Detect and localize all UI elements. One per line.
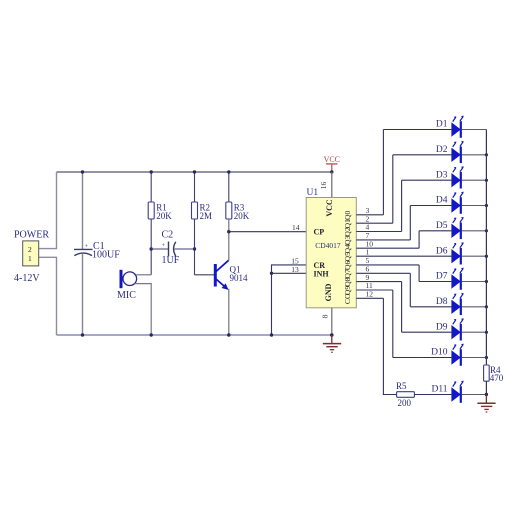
wire CR pin 15 bbox=[272, 265, 307, 335]
wire CP pin 14 bbox=[229, 231, 306, 233]
svg-text:POWER: POWER bbox=[14, 230, 49, 241]
wire R4 bottom bbox=[485, 381, 487, 394]
ground under IC bbox=[323, 335, 341, 352]
wire pin 8 bbox=[331, 308, 333, 335]
LED D2 bbox=[451, 141, 463, 163]
svg-text:4-12V: 4-12V bbox=[14, 273, 40, 284]
wire R1 bottom to MIC node bbox=[150, 219, 152, 275]
svg-text:470: 470 bbox=[490, 373, 504, 383]
junction bus / D2 bbox=[485, 153, 488, 156]
svg-text:U1: U1 bbox=[307, 188, 319, 198]
wire C2 right bbox=[175, 248, 195, 250]
wire pin 3 vertical bbox=[382, 130, 384, 215]
wire top power rail bbox=[57, 171, 332, 173]
svg-text:VCC: VCC bbox=[324, 155, 340, 164]
wire pin 12 vertical to R5 bbox=[383, 298, 396, 394]
wire pin 12 stub bbox=[356, 297, 383, 299]
wire pin 1 to LED D6 bbox=[356, 255, 451, 257]
wire R1 top bbox=[150, 172, 152, 202]
wire Q1 collector bbox=[228, 219, 230, 261]
wire pin 5 stub bbox=[356, 264, 419, 266]
wire LED D1 anode bbox=[383, 129, 451, 131]
wire pin 9 vertical bbox=[401, 282, 403, 333]
svg-text:D1: D1 bbox=[436, 120, 448, 130]
svg-text:R5: R5 bbox=[396, 381, 407, 391]
svg-text:Q1: Q1 bbox=[343, 219, 352, 228]
wire left rail lower (power pin 1 to bottom rail) bbox=[39, 257, 57, 335]
svg-text:Q0: Q0 bbox=[343, 210, 352, 219]
wire Q1 emitter bbox=[228, 289, 230, 335]
svg-text:100UF: 100UF bbox=[92, 250, 120, 261]
wire LED D2 cathode bbox=[462, 154, 487, 156]
svg-text:D3: D3 bbox=[436, 170, 448, 180]
svg-text:CP: CP bbox=[314, 228, 325, 237]
wire LED D9 cathode bbox=[462, 331, 487, 333]
wire C2 left bbox=[151, 248, 168, 250]
power VCC bbox=[324, 155, 340, 172]
svg-text:Q4: Q4 bbox=[343, 244, 352, 253]
svg-text:D5: D5 bbox=[436, 221, 448, 231]
wire LED D2 anode bbox=[393, 154, 452, 156]
wire LED D10 anode bbox=[393, 357, 452, 359]
resistor R3 bbox=[226, 202, 232, 219]
wire cathode bus bbox=[485, 130, 487, 366]
LED D5 bbox=[451, 217, 463, 239]
wire LED D4 cathode bbox=[462, 205, 487, 207]
junction bus / D4 bbox=[485, 204, 488, 207]
svg-text:D11: D11 bbox=[431, 385, 447, 395]
wire LED D4 anode bbox=[410, 205, 451, 207]
capacitor C2 bbox=[162, 242, 176, 257]
LED D11 bbox=[451, 381, 463, 403]
wire LED D5 anode bbox=[419, 230, 451, 232]
wire MIC top terminal bbox=[136, 274, 151, 276]
wire pin 3 stub bbox=[356, 214, 383, 216]
junction bus / D5 bbox=[485, 229, 488, 232]
svg-text:13: 13 bbox=[291, 265, 299, 274]
wire pin 7 stub bbox=[356, 239, 410, 241]
junction R1 / C2 wire bbox=[150, 247, 153, 250]
transistor Q1 bbox=[215, 260, 228, 289]
svg-text:GND: GND bbox=[324, 283, 333, 301]
svg-text:CD4017: CD4017 bbox=[315, 241, 341, 250]
resistor R5 bbox=[397, 392, 415, 398]
wire LED D6 cathode bbox=[462, 255, 487, 257]
wire pin 4 stub bbox=[356, 231, 401, 233]
junction bottom rail / MIC bbox=[150, 333, 153, 336]
connector POWER bbox=[23, 241, 39, 266]
LED D9 bbox=[451, 318, 463, 340]
wire LED D11 cathode bbox=[462, 394, 487, 396]
junction D11 / ground bbox=[485, 393, 488, 396]
svg-text:MIC: MIC bbox=[117, 290, 136, 301]
svg-text:2: 2 bbox=[28, 245, 32, 254]
svg-text:Q3: Q3 bbox=[343, 236, 352, 245]
svg-text:+: + bbox=[85, 243, 89, 250]
junction bottom rail / CR bbox=[270, 333, 273, 336]
wire LED D5 cathode bbox=[462, 230, 487, 232]
wire pin 2 stub bbox=[356, 222, 393, 224]
wire R2 bottom to base node bbox=[194, 219, 196, 275]
wire LED D1 cathode bbox=[462, 129, 487, 131]
wire bottom ground rail bbox=[57, 334, 332, 336]
junction top rail / VCC pin16 bbox=[330, 170, 333, 173]
junction collector / CP wire bbox=[227, 230, 230, 233]
junction top rail / R1 bbox=[150, 170, 153, 173]
wire R2 top bbox=[194, 172, 196, 202]
junction bus / D7 bbox=[485, 280, 488, 283]
svg-text:20K: 20K bbox=[234, 211, 250, 221]
junction bottom rail / C1 bbox=[81, 333, 84, 336]
wire Q1 base bbox=[195, 274, 215, 276]
junction top rail / R3 bbox=[227, 170, 230, 173]
LED D4 bbox=[451, 192, 463, 214]
junction bus / D3 bbox=[485, 179, 488, 182]
LED D10 bbox=[451, 344, 463, 366]
junction bus / D9 bbox=[485, 331, 488, 334]
svg-text:12: 12 bbox=[366, 290, 374, 299]
LED D1 bbox=[451, 116, 463, 138]
svg-text:Q7: Q7 bbox=[343, 269, 352, 278]
capacitor C1 bbox=[74, 243, 93, 256]
svg-text:8: 8 bbox=[321, 314, 330, 318]
svg-text:INH: INH bbox=[314, 269, 330, 278]
wire pin 9 stub bbox=[356, 281, 401, 283]
wire pin 11 stub bbox=[356, 289, 393, 291]
resistor R2 bbox=[192, 202, 198, 219]
junction top rail / C1 bbox=[81, 170, 84, 173]
svg-text:Q2: Q2 bbox=[343, 227, 352, 236]
wire pin 6 stub bbox=[356, 272, 410, 274]
LED D8 bbox=[451, 293, 463, 315]
wire pin 7 vertical bbox=[409, 206, 411, 240]
junction bus / D10 bbox=[485, 356, 488, 359]
junction bottom rail / emitter bbox=[227, 333, 230, 336]
svg-text:1UF: 1UF bbox=[162, 255, 180, 266]
LED D7 bbox=[451, 268, 463, 290]
svg-text:14: 14 bbox=[292, 223, 300, 232]
LED D3 bbox=[451, 166, 463, 188]
resistor R1 bbox=[148, 202, 154, 219]
wire LED D9 anode bbox=[402, 331, 452, 333]
wire pin 10 vertical bbox=[418, 231, 420, 248]
svg-text:20K: 20K bbox=[156, 211, 172, 221]
resistor R4 bbox=[484, 365, 490, 381]
junction CR / INH bbox=[270, 272, 273, 275]
svg-text:D7: D7 bbox=[436, 272, 448, 282]
svg-text:D4: D4 bbox=[436, 196, 448, 206]
svg-text:200: 200 bbox=[398, 398, 412, 408]
op IC U1 CD4017 body bbox=[306, 198, 356, 308]
wire LED D8 anode bbox=[410, 306, 451, 308]
ground right bbox=[477, 395, 495, 413]
svg-text:CO: CO bbox=[343, 293, 352, 304]
wire MIC bottom terminal bbox=[135, 284, 152, 335]
wire C1 top bbox=[82, 172, 84, 249]
wire pin 6 vertical bbox=[409, 273, 411, 307]
wire R5 to LED D11 anode bbox=[414, 394, 451, 396]
svg-text:Q5: Q5 bbox=[343, 252, 352, 261]
wire LED D7 anode bbox=[419, 281, 451, 283]
svg-text:VCC: VCC bbox=[325, 199, 334, 217]
svg-text:Q8: Q8 bbox=[343, 277, 352, 286]
wire C1 bottom bbox=[82, 253, 84, 335]
wire pin 5 vertical bbox=[418, 265, 420, 282]
wire pin 4 vertical bbox=[401, 180, 403, 231]
svg-text:D9: D9 bbox=[436, 322, 448, 332]
wire pin 10 stub bbox=[356, 247, 419, 249]
svg-text:C2: C2 bbox=[162, 230, 174, 241]
junction top rail / R2 bbox=[193, 170, 196, 173]
wire pin 2 vertical bbox=[392, 155, 394, 223]
svg-text:+: + bbox=[162, 242, 166, 249]
svg-text:9014: 9014 bbox=[230, 273, 249, 283]
svg-text:1: 1 bbox=[28, 254, 32, 263]
wire left rail upper (power pin 2 to top rail) bbox=[39, 172, 57, 249]
svg-text:D6: D6 bbox=[436, 246, 448, 256]
svg-text:16: 16 bbox=[319, 182, 328, 190]
svg-text:D10: D10 bbox=[431, 348, 448, 358]
wire LED D3 cathode bbox=[462, 179, 487, 181]
wire LED D10 cathode bbox=[462, 357, 487, 359]
wire pin 16 bbox=[331, 172, 333, 198]
svg-text:2M: 2M bbox=[200, 211, 213, 221]
junction R2 / C2 wire bbox=[193, 247, 196, 250]
junction bus / D8 bbox=[485, 305, 488, 308]
LED D6 bbox=[451, 242, 463, 264]
wire INH pin 13 bbox=[272, 272, 307, 274]
svg-text:D2: D2 bbox=[436, 145, 448, 155]
microphone MIC bbox=[121, 270, 137, 288]
svg-text:D8: D8 bbox=[436, 297, 448, 307]
junction bottom rail / pin 8 bbox=[330, 333, 334, 337]
wire pin 11 vertical bbox=[392, 290, 394, 358]
junction bus / D6 bbox=[485, 255, 488, 258]
wire LED D7 cathode bbox=[462, 281, 487, 283]
wire R3 top bbox=[228, 172, 230, 202]
wire LED D3 anode bbox=[402, 179, 452, 181]
wire LED D8 cathode bbox=[462, 306, 487, 308]
svg-text:Q6: Q6 bbox=[343, 261, 352, 270]
